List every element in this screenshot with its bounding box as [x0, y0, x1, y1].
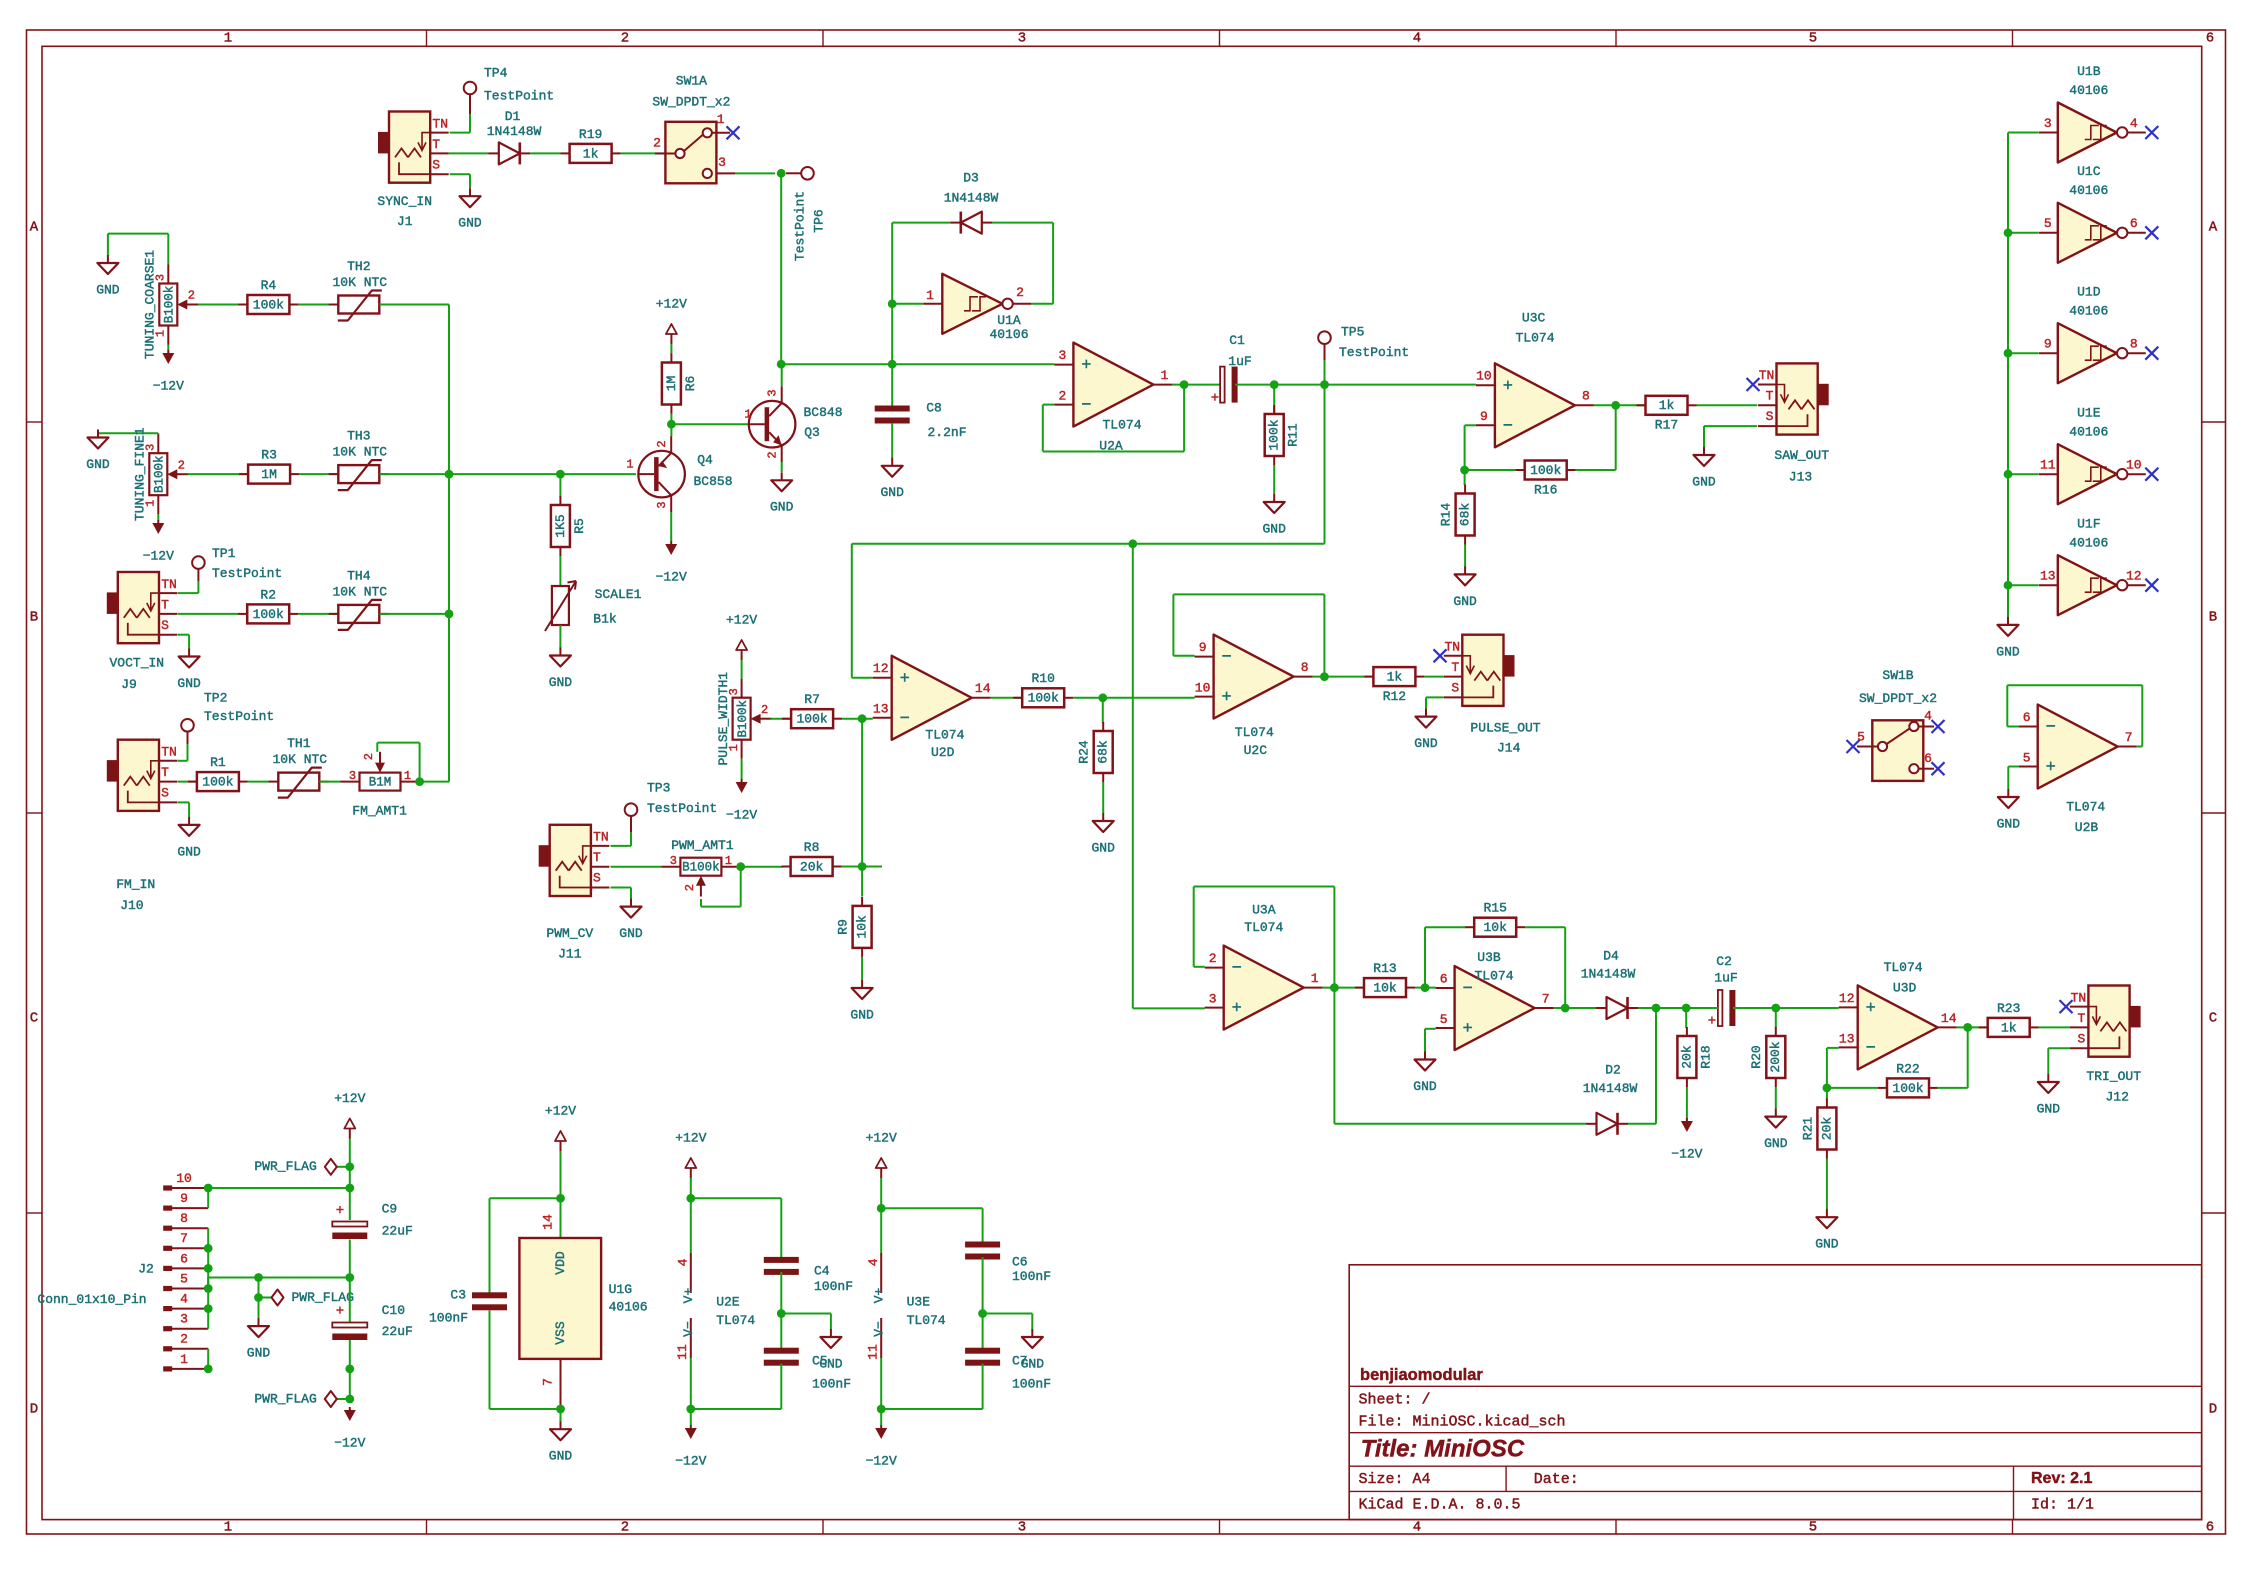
svg-text:+: +	[336, 1304, 344, 1320]
wire	[1827, 1087, 1879, 1089]
wire	[178, 781, 197, 783]
thermistor TH1	[269, 781, 279, 783]
resistor R1	[188, 781, 197, 783]
potentiometer PWM_AMT1	[680, 858, 721, 876]
svg-text:−: −	[1503, 417, 1513, 436]
svg-text:6: 6	[1924, 751, 1932, 766]
junction	[1330, 983, 1339, 992]
ground	[781, 472, 783, 480]
svg-text:200k: 200k	[1768, 1041, 1783, 1072]
svg-text:2.2nF: 2.2nF	[927, 425, 966, 440]
wire	[1324, 385, 1326, 544]
junction	[1652, 1004, 1661, 1013]
power -12V	[670, 512, 672, 541]
title block	[1349, 1265, 2202, 1520]
svg-text:V+: V+	[871, 1288, 886, 1304]
wire	[1826, 1088, 1828, 1099]
wire	[1638, 1007, 1686, 1009]
thermistor TH2	[329, 304, 339, 306]
test point TP1	[192, 556, 205, 569]
svg-text:C1: C1	[1229, 333, 1245, 348]
ground	[861, 980, 863, 988]
svg-text:U1E: U1E	[2077, 406, 2101, 421]
svg-text:6: 6	[180, 1251, 188, 1266]
svg-text:1k: 1k	[1387, 670, 1403, 685]
junction	[345, 1395, 354, 1404]
junction	[204, 1264, 213, 1273]
junction	[686, 1194, 695, 1203]
capacitor C4 100nF	[764, 1257, 799, 1263]
wire	[982, 1364, 984, 1410]
svg-text:GND: GND	[1091, 840, 1115, 855]
svg-text:Date:: Date:	[1534, 1471, 1579, 1488]
svg-text:GND: GND	[458, 216, 482, 231]
wire	[881, 1207, 982, 1209]
power +12V	[690, 1168, 692, 1178]
junction	[736, 862, 745, 871]
svg-text:9: 9	[1199, 640, 1207, 655]
svg-text:1k: 1k	[583, 146, 599, 161]
svg-text:1M: 1M	[664, 376, 679, 392]
svg-text:VOCT_IN: VOCT_IN	[109, 656, 164, 671]
svg-text:40106: 40106	[2069, 536, 2108, 551]
wire	[891, 304, 893, 364]
svg-text:1: 1	[1160, 368, 1168, 383]
junction	[1180, 380, 1189, 389]
svg-text:−12V: −12V	[656, 569, 687, 584]
svg-text:100nF: 100nF	[1012, 1269, 1051, 1284]
inverter U1B	[2058, 103, 2117, 163]
svg-text:TN: TN	[432, 116, 448, 131]
wire	[671, 423, 748, 425]
svg-text:100k: 100k	[1892, 1081, 1923, 1096]
svg-text:U1C: U1C	[2077, 164, 2101, 179]
junction	[667, 420, 676, 429]
wire	[298, 304, 338, 306]
resistor R21	[1826, 1099, 1828, 1108]
wire	[178, 592, 198, 594]
wire	[781, 364, 783, 386]
svg-text:T: T	[161, 765, 169, 780]
svg-text:10: 10	[1476, 369, 1492, 384]
svg-text:5: 5	[180, 1271, 188, 1286]
junction	[858, 862, 867, 871]
ground	[560, 1421, 562, 1429]
wire	[298, 613, 338, 615]
svg-text:100nF: 100nF	[429, 1311, 468, 1326]
junction	[777, 1309, 786, 1318]
svg-text:GND: GND	[1997, 816, 2021, 831]
svg-text:40106: 40106	[609, 1300, 648, 1315]
svg-text:1: 1	[926, 288, 934, 303]
svg-text:TL074: TL074	[716, 1313, 755, 1328]
inverter U1C	[2058, 203, 2117, 263]
capacitor C9 22uF	[332, 1222, 367, 1227]
ground	[1826, 1209, 1828, 1217]
svg-text:40106: 40106	[2069, 183, 2108, 198]
connector J14 PULSE_OUT	[1462, 635, 1503, 706]
svg-text:S: S	[432, 157, 440, 172]
svg-text:Rev: 2.1: Rev: 2.1	[2031, 1470, 2092, 1487]
wire	[2008, 352, 2039, 354]
inverter U1F	[2058, 555, 2117, 615]
wire	[1324, 360, 1326, 385]
wire	[670, 424, 672, 436]
junction	[556, 1194, 565, 1203]
connector J12 TRI_OUT	[2088, 986, 2129, 1057]
test point TP6	[786, 172, 801, 174]
transistor Q4 BC858	[638, 451, 685, 498]
resistor R4	[238, 304, 247, 306]
svg-text:TP3: TP3	[647, 780, 670, 795]
connector J10 FM_IN	[118, 740, 159, 811]
svg-text:7: 7	[180, 1231, 188, 1246]
svg-text:10: 10	[2126, 458, 2142, 473]
svg-text:B1k: B1k	[593, 612, 617, 627]
wire	[983, 1313, 1033, 1315]
svg-text:C10: C10	[382, 1303, 405, 1318]
svg-text:D3: D3	[963, 170, 979, 185]
junction	[1270, 380, 1279, 389]
svg-text:GND: GND	[549, 675, 573, 690]
svg-text:PULSE_WIDTH1: PULSE_WIDTH1	[716, 672, 731, 766]
svg-text:4: 4	[866, 1258, 881, 1266]
thermistor TH4	[329, 613, 339, 615]
junction	[1682, 1004, 1691, 1013]
svg-text:8: 8	[2130, 337, 2138, 352]
junction	[777, 360, 786, 369]
wire	[349, 1139, 351, 1221]
diode D2	[1586, 1123, 1597, 1125]
ground	[2007, 789, 2009, 797]
svg-text:U1A: U1A	[997, 313, 1021, 328]
svg-text:B100k: B100k	[163, 286, 177, 324]
svg-text:2: 2	[653, 136, 661, 151]
svg-text:PWM_AMT1: PWM_AMT1	[671, 838, 734, 853]
junction	[556, 470, 565, 479]
svg-text:TP6: TP6	[811, 209, 826, 232]
junction	[445, 610, 454, 619]
svg-text:TH2: TH2	[347, 259, 370, 274]
wire	[842, 866, 882, 868]
resistor R16	[1516, 469, 1525, 471]
ground	[1102, 813, 1104, 821]
svg-text:T: T	[161, 597, 169, 612]
svg-text:3: 3	[718, 155, 726, 170]
wire	[450, 132, 470, 134]
svg-text:−: −	[900, 710, 910, 729]
capacitor C2 1uF	[1718, 990, 1723, 1026]
wire	[490, 1197, 561, 1199]
wire: J2 bus	[207, 1188, 209, 1208]
wire	[379, 613, 449, 615]
svg-text:1: 1	[1311, 971, 1319, 986]
wire	[992, 222, 1053, 224]
wire	[1464, 545, 1466, 567]
wire	[670, 344, 672, 354]
svg-text:C5: C5	[812, 1354, 828, 1369]
svg-text:1uF: 1uF	[1714, 971, 1737, 986]
svg-text:TL074: TL074	[2066, 800, 2105, 815]
svg-text:2: 2	[655, 440, 669, 447]
svg-text:9: 9	[180, 1191, 188, 1206]
svg-text:−12V: −12V	[334, 1435, 365, 1450]
svg-text:TL074: TL074	[1235, 725, 1274, 740]
potentiometer TUNING_FINE1	[149, 453, 167, 495]
svg-text:TestPoint: TestPoint	[204, 709, 274, 724]
svg-text:−12V: −12V	[726, 807, 757, 822]
svg-text:8: 8	[180, 1211, 188, 1226]
potentiometer TUNING_COARSE1	[159, 284, 177, 326]
svg-text:9: 9	[1480, 409, 1488, 424]
svg-text:GND: GND	[177, 844, 201, 859]
svg-text:U3A: U3A	[1252, 903, 1276, 918]
svg-text:12: 12	[873, 661, 889, 676]
svg-text:SW_DPDT_x2: SW_DPDT_x2	[652, 94, 730, 109]
switch SW1A	[665, 122, 716, 184]
svg-text:TestPoint: TestPoint	[1339, 345, 1409, 360]
svg-text:TP1: TP1	[212, 546, 236, 561]
svg-text:R18: R18	[1698, 1045, 1713, 1068]
svg-text:KiCad E.D.A. 8.0.5: KiCad E.D.A. 8.0.5	[1359, 1496, 1521, 1513]
junction	[686, 1405, 695, 1414]
svg-text:GND: GND	[247, 1346, 271, 1361]
svg-text:R19: R19	[579, 127, 602, 142]
junction	[345, 1273, 354, 1282]
wire	[559, 625, 561, 648]
junction	[877, 1204, 886, 1213]
power -12V	[690, 1425, 692, 1429]
junction	[2004, 228, 2013, 237]
capacitor C8 2.2nF	[875, 406, 910, 412]
svg-text:Conn_01x10_Pin: Conn_01x10_Pin	[37, 1292, 146, 1307]
svg-text:T: T	[2077, 1011, 2085, 1026]
wire	[1464, 470, 1466, 485]
svg-text:100k: 100k	[796, 712, 827, 727]
wire	[258, 1278, 260, 1319]
svg-text:4: 4	[1413, 31, 1421, 47]
svg-text:6: 6	[2206, 1520, 2214, 1536]
junction	[877, 1405, 886, 1414]
wire	[1686, 1087, 1688, 1118]
svg-text:U2D: U2D	[931, 745, 955, 760]
svg-text:TP4: TP4	[484, 65, 508, 80]
switch SW1B	[1872, 720, 1923, 781]
junction	[978, 1309, 987, 1318]
svg-text:FM_AMT1: FM_AMT1	[352, 804, 407, 819]
svg-text:1: 1	[224, 31, 232, 47]
svg-text:FM_IN: FM_IN	[116, 877, 155, 892]
wire	[178, 634, 189, 636]
ground	[188, 817, 190, 825]
svg-text:10: 10	[176, 1171, 192, 1186]
svg-text:14: 14	[1941, 1011, 1957, 1026]
inverter U1A	[942, 274, 1002, 334]
wire	[1465, 469, 1517, 471]
junction	[1320, 380, 1329, 389]
svg-text:SW_DPDT_x2: SW_DPDT_x2	[1859, 691, 1937, 706]
resistor R20	[1775, 1027, 1777, 1036]
junction	[1098, 693, 1107, 702]
capacitor C3 100nF	[472, 1292, 507, 1298]
wire	[559, 474, 561, 497]
junction	[2004, 470, 2013, 479]
svg-text:22uF: 22uF	[382, 1324, 413, 1339]
junction	[1460, 466, 1469, 475]
test point TP2	[181, 719, 194, 732]
power +12V	[560, 1141, 562, 1151]
svg-text:TestPoint: TestPoint	[212, 566, 282, 581]
wire	[780, 173, 782, 364]
junction	[204, 1365, 213, 1374]
power flag PWR_FLAG	[337, 1398, 350, 1400]
svg-text:S: S	[1451, 681, 1459, 696]
svg-text:TL074: TL074	[1884, 960, 1923, 975]
svg-text:TN: TN	[1759, 368, 1775, 383]
svg-text:−12V: −12V	[1671, 1146, 1702, 1161]
power -12V	[167, 345, 169, 351]
svg-text:GND: GND	[1262, 521, 1286, 536]
svg-text:GND: GND	[86, 457, 110, 472]
power +12V	[880, 1168, 882, 1178]
svg-text:J10: J10	[120, 898, 143, 913]
svg-text:TL074: TL074	[907, 1313, 946, 1328]
svg-text:10K NTC: 10K NTC	[332, 445, 387, 460]
svg-text:benjiaomodular: benjiaomodular	[1360, 1366, 1483, 1384]
svg-text:B: B	[30, 610, 38, 626]
wire	[1554, 1007, 1596, 1009]
capacitor C7 100nF	[965, 1348, 1000, 1354]
svg-text:10k: 10k	[855, 915, 870, 939]
svg-text:100k: 100k	[1028, 691, 1059, 706]
junction	[254, 1293, 263, 1302]
wire	[559, 556, 561, 586]
ground	[97, 430, 99, 438]
svg-text:B100k: B100k	[153, 455, 167, 493]
no-connect	[727, 126, 740, 139]
wire	[1937, 1087, 1968, 1089]
svg-text:1: 1	[404, 769, 411, 783]
svg-text:File: MiniOSC.kicad_sch: File: MiniOSC.kicad_sch	[1359, 1413, 1566, 1430]
wire	[178, 760, 188, 762]
svg-text:TP5: TP5	[1341, 324, 1364, 339]
svg-text:R5: R5	[572, 518, 587, 534]
wire	[349, 1240, 351, 1323]
power -12V	[880, 1425, 882, 1429]
wire	[1325, 384, 1476, 386]
capacitor C6 100nF	[965, 1242, 1000, 1248]
svg-text:TUNING_FINE1: TUNING_FINE1	[133, 427, 148, 521]
svg-text:V+: V+	[681, 1288, 696, 1304]
svg-text:SW1A: SW1A	[676, 74, 707, 89]
wire	[1102, 698, 1104, 723]
svg-text:+: +	[1462, 1020, 1472, 1039]
resistor R24	[1102, 722, 1104, 731]
svg-text:TN: TN	[161, 577, 177, 592]
junction	[1823, 1084, 1832, 1093]
svg-text:2: 2	[178, 458, 185, 472]
wire	[1102, 782, 1104, 813]
resistor R19	[561, 152, 570, 154]
power +12V	[349, 1129, 351, 1139]
svg-text:−12V: −12V	[866, 1453, 897, 1468]
ground	[830, 1329, 832, 1337]
op-amp U2B	[2038, 705, 2118, 789]
resistor R15	[1465, 926, 1474, 928]
svg-text:12: 12	[1839, 991, 1855, 1006]
junction	[204, 1284, 213, 1293]
capacitor C1 1uF	[1220, 367, 1225, 403]
wire	[2008, 132, 2039, 134]
svg-text:U1G: U1G	[609, 1282, 632, 1297]
op-amp U2D	[892, 656, 972, 740]
wire	[1172, 384, 1220, 386]
wire	[611, 866, 662, 868]
test point TP5	[1318, 331, 1331, 344]
svg-text:R15: R15	[1483, 901, 1506, 916]
svg-text:R12: R12	[1383, 689, 1406, 704]
resistor R3	[239, 473, 248, 475]
connector J2 Conn_01x10_Pin	[167, 1187, 208, 1189]
ground	[891, 458, 893, 466]
svg-text:S: S	[1766, 409, 1774, 424]
svg-text:2: 2	[1209, 951, 1217, 966]
svg-text:11: 11	[2040, 458, 2056, 473]
wire	[2008, 232, 2039, 234]
junction	[1963, 1023, 1972, 1032]
svg-text:R3: R3	[261, 448, 277, 463]
junction	[1128, 539, 1137, 548]
ground	[1424, 1052, 1426, 1060]
wire	[741, 660, 743, 679]
svg-text:2: 2	[621, 1520, 629, 1536]
svg-text:SYNC_IN: SYNC_IN	[377, 194, 432, 209]
svg-text:3: 3	[2044, 116, 2052, 131]
no-connect	[1932, 762, 1945, 775]
svg-text:100k: 100k	[1530, 463, 1561, 478]
wire	[1043, 404, 1055, 406]
wire	[178, 613, 239, 615]
resistor R22	[1878, 1087, 1887, 1089]
svg-text:C6: C6	[1012, 1254, 1028, 1269]
resistor R10	[1013, 697, 1022, 699]
svg-text:10: 10	[1195, 681, 1211, 696]
junction	[445, 470, 454, 479]
svg-text:4: 4	[1924, 708, 1932, 723]
wire	[1313, 676, 1374, 678]
test point TP3	[625, 803, 638, 816]
wire	[2008, 473, 2039, 475]
svg-text:TN: TN	[593, 830, 609, 845]
wire	[1775, 1008, 1777, 1028]
svg-text:5: 5	[2023, 750, 2031, 765]
svg-text:R16: R16	[1534, 482, 1557, 497]
svg-text:SW1B: SW1B	[1882, 668, 1913, 683]
svg-text:U3B: U3B	[1477, 950, 1501, 965]
wire	[781, 363, 1054, 365]
svg-text:D4: D4	[1603, 948, 1619, 963]
svg-text:R13: R13	[1373, 961, 1396, 976]
connector J1 SYNC_IN	[389, 112, 430, 183]
svg-text:GND: GND	[549, 1449, 573, 1464]
svg-text:TL074: TL074	[925, 728, 964, 743]
svg-text:+12V: +12V	[726, 612, 757, 627]
svg-text:+: +	[1232, 1000, 1242, 1019]
svg-text:VDD: VDD	[553, 1251, 568, 1275]
svg-text:J12: J12	[2105, 1090, 2128, 1105]
svg-text:R1: R1	[210, 755, 226, 770]
ground	[1703, 447, 1705, 455]
